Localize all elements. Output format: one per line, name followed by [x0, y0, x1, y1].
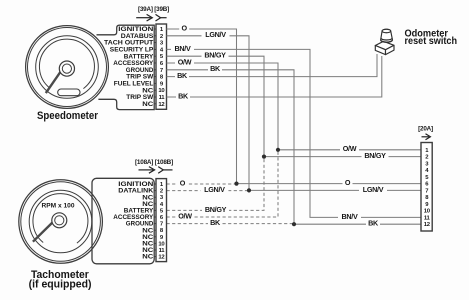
svg-text:[20A]: [20A] — [418, 126, 433, 133]
speedometer hub — [59, 61, 74, 76]
svg-text:12: 12 — [424, 222, 431, 228]
wire BN/V speedometer pin 4 to 20A pin 11 — [167, 49, 422, 217]
svg-text:O: O — [345, 178, 351, 187]
connector 108A mating arrow — [139, 167, 155, 174]
speedometer needle — [46, 66, 65, 93]
tachometer inner ring — [29, 190, 92, 253]
connector 20A arrow — [422, 134, 431, 140]
svg-text:12: 12 — [158, 102, 165, 108]
wire O speedometer pin 1 to 20A pin 6 — [167, 29, 422, 184]
label BK on 20A pin 12 wire — [366, 219, 380, 228]
svg-text:BK: BK — [178, 91, 189, 100]
odometer reset switch body — [375, 41, 394, 54]
junction LGN/V — [247, 188, 251, 192]
label O on tachometer pin 1 wire — [177, 178, 187, 187]
svg-text:BK: BK — [210, 218, 221, 227]
tachometer scale arc — [33, 194, 88, 244]
connector 108 body — [156, 179, 167, 262]
tachometer needle — [33, 218, 57, 242]
speedometer label panel outline — [97, 25, 155, 109]
junction BK — [292, 222, 296, 226]
dashed wire LGN/V tachometer pin 2 — [167, 190, 250, 192]
svg-text:[108A] [108B]: [108A] [108B] — [135, 159, 173, 166]
dashed wire O tachometer pin 1 — [167, 183, 237, 185]
connector 108B mating chevron — [158, 167, 172, 174]
svg-text:O/W: O/W — [343, 144, 357, 153]
label O/W on tachometer pin 6 wire — [176, 211, 195, 220]
tachometer hub — [52, 213, 67, 228]
label BN/GY on speedometer pin 5 wire — [202, 51, 229, 60]
label O on speedometer pin 1 wire — [179, 23, 189, 32]
tachometer label panel outline — [92, 178, 154, 263]
svg-text:NC: NC — [142, 254, 153, 261]
label LGN/V on speedometer pin 2 wire — [202, 30, 230, 39]
svg-text:NC: NC — [142, 101, 153, 108]
label BN/V on speedometer pin 4 wire — [171, 44, 194, 53]
svg-text:11: 11 — [159, 248, 166, 254]
label O on 20A pin 6 wire — [343, 178, 353, 187]
junction O — [234, 182, 238, 186]
svg-text:O/W: O/W — [178, 211, 192, 220]
svg-text:BN/V: BN/V — [174, 44, 191, 53]
svg-text:O: O — [182, 23, 188, 32]
svg-text:reset switch: reset switch — [405, 36, 458, 47]
svg-text:BK: BK — [210, 64, 221, 73]
wire LGN/V speedometer pin 2 to 20A pin 7 — [167, 36, 422, 191]
label BK on speedometer pin 11 wire — [176, 91, 190, 100]
svg-text:[39A] [39B]: [39A] [39B] — [138, 6, 169, 13]
label BN/V on 20A pin 11 wire — [338, 212, 361, 221]
label BN/GY on 20A pin 2 wire — [362, 151, 389, 160]
svg-text:10: 10 — [158, 241, 165, 247]
speedometer odometer window — [58, 89, 80, 96]
svg-text:BN/V: BN/V — [341, 212, 358, 221]
svg-text:LGN/V: LGN/V — [363, 185, 384, 194]
junction O/W — [276, 148, 280, 152]
svg-text:12: 12 — [158, 255, 165, 261]
svg-text:RPM x 100: RPM x 100 — [42, 203, 76, 210]
wire BK speedometer pin 11 to odometer reset switch — [167, 56, 382, 97]
odometer reset switch button — [381, 29, 393, 42]
speedometer outer bezel circles — [26, 26, 109, 109]
wire O/W speedometer pin 6 to 20A pin 1 — [167, 63, 422, 150]
speedometer inner ring — [36, 36, 99, 99]
label BK on speedometer pin 8 wire — [175, 71, 189, 80]
svg-text:O/W: O/W — [178, 57, 192, 66]
tachometer outer bezel circles — [19, 180, 103, 264]
wire BN/GY speedometer pin 5 to 20A pin 2 — [167, 56, 422, 156]
label BN/GY on tachometer pin 5 wire — [202, 205, 229, 214]
wire BK speedometer pin 8 to odometer reset switch — [167, 54, 378, 77]
dashed wire O/W tachometer pin 6 — [167, 150, 279, 217]
svg-text:Speedometer: Speedometer — [37, 110, 99, 122]
svg-text:BN/GY: BN/GY — [205, 205, 227, 214]
svg-text:BK: BK — [368, 219, 379, 228]
svg-text:(if equipped): (if equipped) — [29, 279, 92, 291]
label O/W on speedometer pin 6 wire — [175, 57, 194, 66]
speedometer scale arc — [39, 39, 94, 89]
dashed wire BN/GY tachometer pin 5 — [167, 157, 265, 211]
label LGN/V on 20A pin 7 wire — [359, 185, 387, 194]
svg-text:BN/GY: BN/GY — [364, 151, 386, 160]
wire BK speedometer pin 7 to 20A pin 12 — [167, 70, 422, 224]
svg-text:BN/GY: BN/GY — [204, 51, 226, 60]
svg-text:LGN/V: LGN/V — [204, 185, 225, 194]
dashed wire BK tachometer pin 7 — [167, 223, 295, 225]
label O/W on 20A pin 1 wire — [340, 144, 359, 153]
svg-text:10: 10 — [424, 209, 431, 215]
svg-text:O: O — [180, 178, 186, 187]
label BK on tachometer pin 7 wire — [208, 218, 222, 227]
connector 39 body — [156, 24, 167, 109]
label BK on speedometer pin 7 wire — [208, 64, 222, 73]
connector 20A body — [421, 143, 432, 232]
junction BN/GY — [262, 155, 266, 159]
svg-text:LGN/V: LGN/V — [205, 30, 226, 39]
connector 39A mating arrow — [136, 14, 152, 21]
svg-text:BK: BK — [177, 71, 188, 80]
svg-text:10: 10 — [158, 88, 165, 94]
svg-text:11: 11 — [159, 95, 166, 101]
connector 39B mating chevron — [156, 14, 167, 21]
label LGN/V on tachometer pin 2 wire — [200, 185, 228, 194]
